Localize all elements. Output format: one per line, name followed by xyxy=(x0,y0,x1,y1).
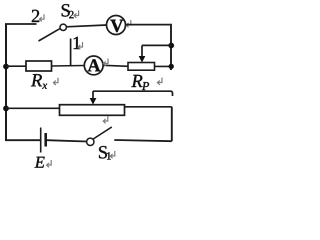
switch S1 blade xyxy=(93,127,112,139)
wire rail to slide rheostat xyxy=(6,107,60,109)
pilcrow after Rx xyxy=(53,78,58,85)
switch S1 pivot circle xyxy=(87,138,94,145)
switch S2 pivot circle xyxy=(60,24,66,30)
bottom wire left (battery side) xyxy=(5,139,40,141)
pilcrow after S2 xyxy=(74,11,79,18)
label 1 xyxy=(74,37,81,49)
slider arrow shaft xyxy=(92,91,94,99)
wire slide rheostat to lower right rail xyxy=(125,106,172,108)
pilcrow after 1 xyxy=(78,42,83,49)
wire Rx to ammeter xyxy=(52,65,85,68)
battery E long plate xyxy=(40,128,42,153)
wire 1 (vertical, free top end) xyxy=(70,39,72,67)
wire rail to RP slider xyxy=(142,44,171,46)
pilcrow after E xyxy=(47,160,52,167)
bottom wire to S1 fixed contact xyxy=(114,140,172,141)
node dot: rail / RP right terminal xyxy=(169,64,174,69)
RP slider arrowhead xyxy=(139,56,146,63)
label RP xyxy=(131,75,142,87)
wire voltmeter to top-right corner xyxy=(126,24,171,26)
wire RP to rail xyxy=(155,65,172,67)
node dot: rail / RP slider wire xyxy=(168,43,174,49)
battery E short plate xyxy=(44,133,47,147)
right rail (lower) xyxy=(171,107,173,141)
pilcrow after 2 xyxy=(39,14,44,21)
right rail (upper) xyxy=(170,24,172,70)
left rail xyxy=(5,24,7,141)
pilcrow after RP xyxy=(157,78,162,85)
node dot: rail / slide-rheostat wire xyxy=(3,106,9,112)
wire ammeter to RP xyxy=(103,65,128,66)
resistor Rx box xyxy=(26,61,52,71)
pilcrow below slide rheostat xyxy=(103,116,108,123)
slide rheostat box xyxy=(60,105,125,116)
wire 2 (top-left, free end) xyxy=(5,23,37,25)
pilcrow after S1 xyxy=(110,151,115,158)
slide rheostat slider arrowhead xyxy=(90,98,97,105)
ammeter A xyxy=(84,56,103,75)
rheostat RP box xyxy=(128,63,155,71)
node dot: rail / Rx wire xyxy=(3,64,9,70)
pilcrow after V xyxy=(126,20,131,27)
label S2 xyxy=(62,4,70,16)
label 2 xyxy=(32,10,39,22)
label Rx xyxy=(31,74,42,86)
wire battery to S1 xyxy=(47,140,87,141)
wire S2 to voltmeter xyxy=(66,25,106,27)
voltmeter V xyxy=(107,16,126,35)
wire rail to Rx xyxy=(6,65,26,67)
label S1 xyxy=(99,146,107,158)
slider wire to right with hooked end xyxy=(93,91,173,96)
pilcrow after A xyxy=(103,59,108,66)
switch S2 blade xyxy=(39,28,61,41)
label E xyxy=(35,157,45,168)
RP slider arrow shaft xyxy=(141,45,143,57)
